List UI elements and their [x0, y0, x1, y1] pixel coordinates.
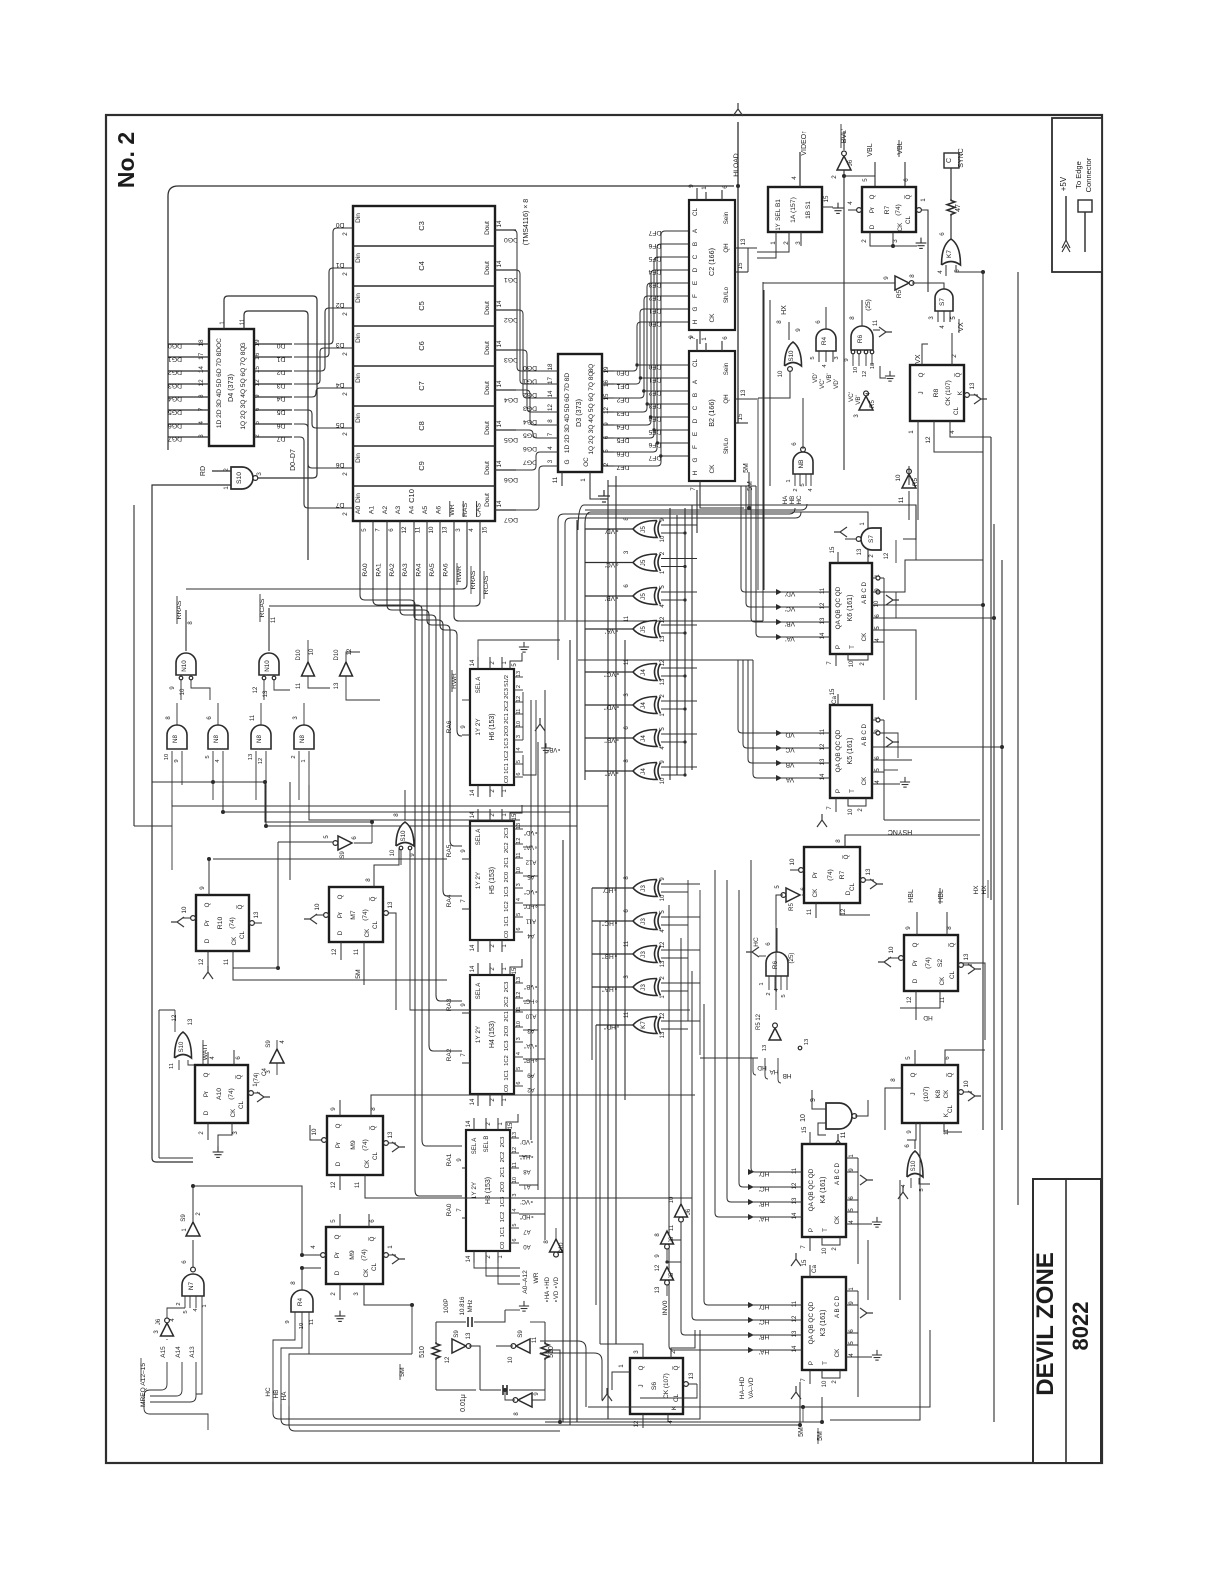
- svg-text:CL: CL: [849, 882, 856, 890]
- svg-text:HB': HB': [759, 1333, 769, 1340]
- wire J3 output: [592, 887, 633, 889]
- wire right rail x983 extension: [982, 1042, 984, 1130]
- gate N7 NAND: [182, 1274, 204, 1296]
- svg-text:15: 15: [802, 1126, 808, 1133]
- svg-text:11: 11: [944, 1128, 950, 1135]
- svg-text:11: 11: [669, 1224, 675, 1231]
- svg-text:12: 12: [603, 407, 610, 414]
- svg-text:13: 13: [820, 758, 826, 765]
- wires K8 bottom: [907, 1123, 916, 1140]
- svg-text:13: 13: [334, 682, 340, 689]
- svg-text:1: 1: [202, 1304, 208, 1307]
- svg-text:13: 13: [516, 671, 522, 677]
- svg-text:2C3: 2C3: [504, 828, 510, 839]
- wires K4 bottom: [809, 1237, 811, 1251]
- svg-text:1C3: 1C3: [504, 738, 510, 749]
- svg-text:K7: K7: [640, 1021, 647, 1029]
- svg-text:VD': VD': [785, 590, 795, 597]
- svg-text:DF5: DF5: [648, 255, 661, 262]
- xor gate J3 row 1: [633, 880, 657, 897]
- wires H3 bottom runs: [474, 1251, 520, 1268]
- wires H3 top pins: [473, 1118, 475, 1130]
- gate NB 4: [294, 725, 314, 749]
- svg-text:DF2: DF2: [616, 396, 629, 403]
- svg-text:RA6: RA6: [446, 720, 453, 733]
- shift register C2 (166): [689, 200, 735, 330]
- svg-text:13: 13: [792, 1197, 798, 1204]
- svg-text:1A (157): 1A (157): [790, 197, 797, 223]
- svg-text:2: 2: [342, 272, 349, 276]
- svg-text:Pr: Pr: [204, 920, 211, 926]
- svg-text:VB': VB': [855, 395, 862, 404]
- svg-text:4: 4: [310, 1245, 317, 1249]
- svg-text:Sein: Sein: [723, 362, 730, 375]
- wires DG bus from DRAM to D3: [513, 230, 558, 371]
- svg-text:15: 15: [830, 688, 836, 695]
- svg-text:N10: N10: [264, 660, 271, 672]
- svg-text:D: D: [204, 938, 211, 943]
- svg-text:CK: CK: [231, 936, 238, 945]
- wires K6 D B long runs: [872, 617, 994, 619]
- wire J3 output: [592, 953, 633, 955]
- oscillator inverter S9 c: [518, 1393, 532, 1407]
- wires R7 bottom D CK: [870, 232, 893, 246]
- svg-text:1C0: 1C0: [504, 776, 510, 787]
- svg-text:QA QB QC QD: QA QB QC QD: [835, 729, 842, 772]
- wires R4 inputs VD' VC' VB': [818, 351, 820, 362]
- svg-text:12: 12: [332, 948, 338, 955]
- svg-text:HBL: HBL: [908, 889, 915, 903]
- svg-text:Q̅: Q̅: [955, 372, 962, 377]
- svg-text:SEL A: SEL A: [476, 983, 482, 999]
- svg-text:S9: S9: [339, 851, 346, 859]
- wires K5 D B long runs: [872, 746, 1002, 748]
- svg-text:2C2: 2C2: [504, 842, 510, 853]
- wire 5M rail: [588, 1330, 930, 1407]
- gate R4 AND: [816, 329, 836, 351]
- svg-text:D1: D1: [335, 261, 344, 268]
- svg-text:DG4: DG4: [504, 396, 518, 403]
- svg-text:1Y: 1Y: [776, 223, 782, 230]
- wires R4b inputs: [294, 1312, 296, 1330]
- svg-text:12: 12: [516, 696, 522, 702]
- svg-text:R5: R5: [896, 289, 903, 298]
- svg-text:2: 2: [831, 175, 838, 179]
- svg-text:Dout: Dout: [484, 493, 491, 507]
- wire J5 output to channel: [585, 628, 633, 630]
- svg-text:HD': HD': [759, 1303, 770, 1310]
- svg-text:2: 2: [793, 488, 799, 491]
- svg-text:Pr: Pr: [869, 207, 876, 213]
- wire RD input: [212, 470, 231, 472]
- wire M7 Pr: [324, 913, 329, 918]
- svg-text:D: D: [337, 930, 344, 935]
- flip-flop R10 (74): [196, 895, 249, 951]
- svg-text:P: P: [808, 1361, 815, 1365]
- svg-text:6: 6: [181, 1260, 188, 1264]
- svg-text:9: 9: [844, 358, 850, 361]
- svg-text:14: 14: [496, 340, 503, 347]
- svg-text:5: 5: [954, 269, 961, 273]
- svg-text:1: 1: [920, 198, 927, 202]
- svg-text:R10: R10: [217, 917, 224, 930]
- svg-text:2C2: 2C2: [504, 996, 510, 1007]
- svg-text:CL: CL: [239, 930, 246, 938]
- svg-text:1: 1: [786, 479, 792, 482]
- svg-text:Q: Q: [638, 1365, 645, 1370]
- svg-text:∘VC': ∘VC': [605, 561, 620, 568]
- svg-text:5M: 5M: [743, 463, 750, 473]
- wires J4 inputs: [661, 766, 697, 768]
- svg-text:C10: C10: [407, 489, 416, 503]
- svg-text:C5: C5: [417, 301, 426, 311]
- svg-text:A B C D: A B C D: [861, 581, 868, 604]
- svg-text:14: 14: [466, 1120, 472, 1127]
- svg-text:13: 13: [516, 977, 522, 983]
- svg-text:OC: OC: [583, 457, 590, 467]
- svg-text:3: 3: [256, 472, 263, 476]
- svg-text:∘VD ∘VD: ∘VD ∘VD: [554, 1276, 560, 1303]
- svg-text:S7: S7: [939, 298, 946, 306]
- svg-text:1Y 2Y: 1Y 2Y: [475, 871, 482, 889]
- flip-flop M9 upper (74): [327, 1116, 383, 1175]
- wires A10 bottom: [207, 1123, 209, 1140]
- svg-text:J4: J4: [640, 735, 647, 742]
- svg-text:Pr: Pr: [203, 1091, 210, 1097]
- svg-text:Dout: Dout: [484, 421, 491, 435]
- svg-text:CL: CL: [947, 1104, 954, 1112]
- svg-text:Q̅: Q̅: [369, 1236, 376, 1241]
- svg-text:16: 16: [603, 380, 610, 387]
- svg-text:6: 6: [791, 442, 798, 446]
- wires H5 select inputs: [462, 858, 470, 860]
- svg-text:16: 16: [254, 352, 261, 360]
- wires S7 inputs: [937, 311, 939, 322]
- svg-text:CK: CK: [230, 1108, 237, 1117]
- wires R8 bottom pins: [917, 421, 919, 520]
- svg-text:2C0: 2C0: [500, 1182, 506, 1193]
- svg-text:RA1: RA1: [375, 563, 382, 576]
- svg-text:3: 3: [455, 528, 462, 532]
- svg-text:5: 5: [905, 1056, 912, 1060]
- wires mux right column verticals: [530, 700, 532, 1140]
- flip-flop R7 (74) video blank: [862, 187, 916, 232]
- svg-text:1: 1: [223, 486, 230, 490]
- gate S10 (RD enable NAND): [231, 467, 253, 489]
- svg-text:12: 12: [198, 379, 205, 387]
- svg-text:CK: CK: [834, 1215, 841, 1224]
- svg-text:CK (107): CK (107): [945, 380, 952, 406]
- svg-text:(74): (74): [827, 869, 834, 881]
- wire channel verticals x570-577: [569, 640, 571, 1425]
- svg-text:HB': HB': [759, 1200, 769, 1207]
- flip-flop S6 (107): [630, 1358, 683, 1414]
- xor gate J4 row 1: [633, 664, 657, 681]
- svg-text:G: G: [692, 457, 699, 462]
- svg-text:14: 14: [792, 1345, 798, 1352]
- svg-text:DF4: DF4: [616, 423, 629, 430]
- svg-text:A8: A8: [523, 1168, 531, 1174]
- svg-text:4: 4: [468, 528, 475, 532]
- svg-text:2: 2: [342, 512, 349, 516]
- wire R7b Pr: [799, 868, 804, 873]
- connector C SYNC: [944, 153, 959, 168]
- svg-text:∘VD': ∘VD': [520, 1138, 533, 1144]
- multiplexer H4 (153): [470, 975, 514, 1094]
- gate R6 AND: [851, 326, 873, 350]
- svg-text:C7: C7: [417, 381, 426, 391]
- svg-text:Q: Q: [204, 902, 211, 907]
- svg-text:2: 2: [176, 1302, 182, 1305]
- svg-text:1Y 2Y: 1Y 2Y: [475, 1025, 482, 1043]
- svg-text:1Q 2Q 3Q 4Q 5Q 6Q 7Q 8Q: 1Q 2Q 3Q 4Q 5Q 6Q 7Q 8Q: [588, 371, 595, 454]
- wire S7b to K6: [903, 539, 916, 560]
- svg-text:Pr: Pr: [334, 1252, 341, 1258]
- wire RWR comb to y621 rail: [454, 521, 763, 621]
- svg-text:CK: CK: [709, 313, 716, 323]
- svg-text:HD': HD': [759, 1170, 770, 1177]
- svg-text:11: 11: [940, 996, 946, 1003]
- svg-text:Q̅: Q̅: [236, 1074, 243, 1079]
- wires H3 bottom pins: [473, 1251, 475, 1263]
- svg-text:14: 14: [466, 1255, 472, 1262]
- wire right k-verticals: [830, 1123, 920, 1420]
- svg-text:Q̅: Q̅: [237, 904, 244, 909]
- svg-text:H5 (153): H5 (153): [489, 867, 496, 894]
- oscillator cross coupling: [469, 1346, 480, 1390]
- svg-text:4: 4: [512, 1208, 518, 1211]
- wire K6 D input from right: [872, 630, 916, 700]
- svg-text:6: 6: [254, 407, 261, 411]
- svg-text:G: G: [692, 306, 699, 311]
- wires S6 bottom: [642, 1414, 644, 1428]
- svg-text:HC: HC: [753, 937, 760, 947]
- svg-text:2: 2: [342, 312, 349, 316]
- wires D4 left input stubs DG0-DG7: [168, 343, 209, 345]
- wire A10 pins top: [207, 1052, 209, 1065]
- svg-text:100P: 100P: [443, 1299, 450, 1314]
- wires M9l bottom: [339, 1284, 341, 1300]
- svg-text:D4: D4: [276, 395, 285, 402]
- svg-text:CK: CK: [364, 928, 371, 937]
- svg-text:1C0: 1C0: [504, 1085, 510, 1096]
- wires K3 left inputs: [770, 1304, 802, 1306]
- svg-text:19: 19: [603, 366, 610, 373]
- svg-text:12: 12: [660, 1012, 666, 1019]
- xor gate J4 row 2: [633, 697, 657, 714]
- svg-text:9: 9: [810, 1098, 817, 1102]
- svg-text:CK: CK: [861, 632, 868, 641]
- svg-text:A6: A6: [435, 506, 442, 515]
- wire M9u CL: [384, 1141, 389, 1146]
- svg-text:A0–A12: A0–A12: [522, 1270, 529, 1294]
- svg-text:VD': VD': [833, 379, 840, 389]
- svg-text:13: 13: [820, 617, 826, 624]
- svg-text:A14: A14: [175, 1346, 182, 1358]
- svg-text:DG4: DG4: [168, 395, 182, 402]
- svg-text:Din: Din: [355, 213, 362, 223]
- svg-text:CL: CL: [953, 406, 960, 414]
- svg-text:HA': HA': [759, 1348, 769, 1355]
- svg-text:5: 5: [603, 449, 610, 453]
- wire HLOAD vertical: [735, 122, 738, 423]
- svg-text:11: 11: [898, 496, 905, 503]
- svg-text:D1: D1: [276, 355, 285, 362]
- svg-text:CL: CL: [692, 207, 699, 215]
- wire channel vertical x585: [584, 524, 586, 780]
- svg-text:8022: 8022: [1068, 1302, 1093, 1351]
- svg-text:S2: S2: [937, 959, 944, 968]
- svg-text:HB: HB: [273, 1390, 280, 1399]
- wire vertical x758: [757, 398, 759, 590]
- svg-text:11: 11: [624, 1011, 630, 1018]
- wires A13-A15 bus hooks: [150, 1362, 167, 1390]
- svg-text:D: D: [203, 1110, 210, 1115]
- svg-text:11: 11: [516, 709, 522, 715]
- svg-text:QA QB QC QD: QA QB QC QD: [808, 1168, 815, 1211]
- svg-text:11: 11: [873, 319, 879, 326]
- svg-text:13: 13: [688, 1372, 695, 1379]
- node VBL-bar: [904, 162, 906, 187]
- svg-text:CK: CK: [861, 776, 868, 785]
- wire N7 pin1 long drop: [196, 1308, 202, 1394]
- wires K6 K5 right ladder: [884, 592, 896, 618]
- svg-text:13: 13: [804, 1039, 810, 1045]
- svg-text:DG5: DG5: [168, 409, 182, 416]
- svg-text:M9: M9: [350, 1140, 357, 1150]
- svg-text:A0: A0: [355, 506, 362, 515]
- svg-text:11: 11: [516, 853, 522, 859]
- xor gate J3 row 3: [633, 946, 657, 963]
- wire J5 output to channel: [585, 528, 633, 530]
- svg-text:R8: R8: [933, 388, 940, 397]
- wire K8 CL: [959, 1090, 964, 1095]
- svg-text:6: 6: [516, 772, 522, 775]
- svg-text:R5 12: R5 12: [756, 1013, 762, 1030]
- inverter S9 n7: [186, 1222, 200, 1236]
- svg-text:14: 14: [496, 500, 503, 507]
- svg-text:13: 13: [387, 1131, 394, 1138]
- svg-text:VA–VD: VA–VD: [748, 1377, 755, 1398]
- wires J4 inputs: [661, 667, 697, 669]
- svg-text:D4 (373): D4 (373): [226, 374, 235, 402]
- wire H bus verticals: [668, 905, 670, 1158]
- svg-text:13: 13: [792, 1330, 798, 1337]
- svg-text:DF3: DF3: [648, 402, 661, 409]
- svg-text:D2: D2: [276, 369, 285, 376]
- svg-text:∘VC": ∘VC": [604, 671, 620, 678]
- wire N7 output: [191, 1267, 196, 1272]
- svg-text:R5: R5: [788, 902, 795, 910]
- svg-text:CL: CL: [372, 920, 379, 928]
- wires B2 top pins: [696, 339, 698, 351]
- svg-text:2: 2: [603, 462, 610, 466]
- svg-text:1: 1: [770, 241, 777, 245]
- wires NB inputs HA HB HC: [794, 474, 796, 486]
- svg-text:11: 11: [239, 318, 246, 325]
- svg-text:DG7: DG7: [523, 459, 537, 466]
- counter K6 (161): [830, 563, 872, 654]
- svg-text:13: 13: [857, 548, 863, 555]
- wire S9 to M9l Pr: [193, 1186, 302, 1255]
- svg-text:A B C D: A B C D: [834, 1295, 841, 1318]
- resistor 47: [947, 199, 955, 216]
- svg-text:R6: R6: [772, 960, 779, 969]
- wires C2 right pins QH ShLo: [735, 247, 757, 249]
- wires DRAM Din bus D0-D7: [294, 228, 353, 344]
- wires H bus upper hooks: [591, 888, 593, 1060]
- svg-text:6: 6: [944, 1056, 951, 1060]
- svg-text:A2: A2: [382, 506, 389, 515]
- svg-text:SEL A: SEL A: [472, 1138, 478, 1154]
- svg-text:DG3: DG3: [504, 356, 518, 363]
- svg-text:13: 13: [865, 868, 872, 875]
- legend box: [1052, 118, 1102, 272]
- svg-text:D7: D7: [335, 501, 344, 508]
- svg-text:M7: M7: [350, 910, 357, 920]
- svg-text:E: E: [692, 281, 699, 285]
- svg-text:Din: Din: [355, 333, 362, 343]
- svg-text:DF3: DF3: [616, 410, 629, 417]
- svg-text:S10: S10: [911, 1160, 917, 1171]
- node VBL: [874, 176, 876, 187]
- svg-text:(74): (74): [229, 917, 236, 929]
- wires H5 top pins: [477, 809, 479, 821]
- svg-text:J3: J3: [640, 885, 647, 892]
- wires K3 bottom: [809, 1370, 811, 1384]
- wires K6 right pins: [872, 577, 884, 579]
- svg-text:C3: C3: [417, 221, 426, 231]
- svg-text:HLOAD: HLOAD: [733, 153, 740, 177]
- wires H6 right hooks: [522, 692, 524, 740]
- svg-text:J3: J3: [640, 918, 647, 925]
- svg-text:1: 1: [908, 430, 915, 434]
- svg-text:D: D: [845, 890, 852, 895]
- xor gate J3 row 4: [633, 979, 657, 996]
- svg-text:DF4: DF4: [648, 268, 661, 275]
- wires K7 inputs: [661, 1020, 700, 1022]
- svg-text:CK: CK: [364, 1159, 371, 1168]
- svg-text:1C1: 1C1: [504, 763, 510, 774]
- title block box: [1033, 1179, 1101, 1463]
- svg-text:S7: S7: [868, 535, 875, 543]
- svg-text:10: 10: [778, 370, 784, 377]
- svg-text:H3 (153): H3 (153): [485, 1177, 492, 1204]
- svg-text:12: 12: [331, 1181, 337, 1188]
- wires S6 left J: [612, 1372, 630, 1390]
- wires C2 CK pin: [699, 330, 701, 344]
- wire right rail HX-bar: [990, 437, 992, 900]
- gate K7 sync OR: [942, 239, 961, 265]
- svg-text:P: P: [835, 789, 842, 793]
- svg-text:(74): (74): [362, 1139, 369, 1151]
- svg-text:10: 10: [822, 1247, 828, 1254]
- svg-text:13: 13: [660, 635, 666, 642]
- gate S7 AND: [935, 289, 953, 311]
- svg-text:Sh/Lo: Sh/Lo: [723, 286, 730, 303]
- svg-text:10: 10: [874, 600, 880, 607]
- svg-text:10: 10: [669, 1196, 675, 1203]
- svg-text:12: 12: [258, 758, 264, 764]
- wire J3 output: [592, 920, 633, 922]
- svg-text:A3: A3: [395, 506, 402, 515]
- svg-text:A B C D: A B C D: [834, 1162, 841, 1185]
- svg-text:12: 12: [792, 1315, 798, 1322]
- svg-text:Din: Din: [355, 373, 362, 383]
- svg-text:4: 4: [937, 270, 944, 274]
- oscillator inverter S9 b: [516, 1339, 530, 1353]
- svg-text:1Y 2Y: 1Y 2Y: [471, 1181, 478, 1199]
